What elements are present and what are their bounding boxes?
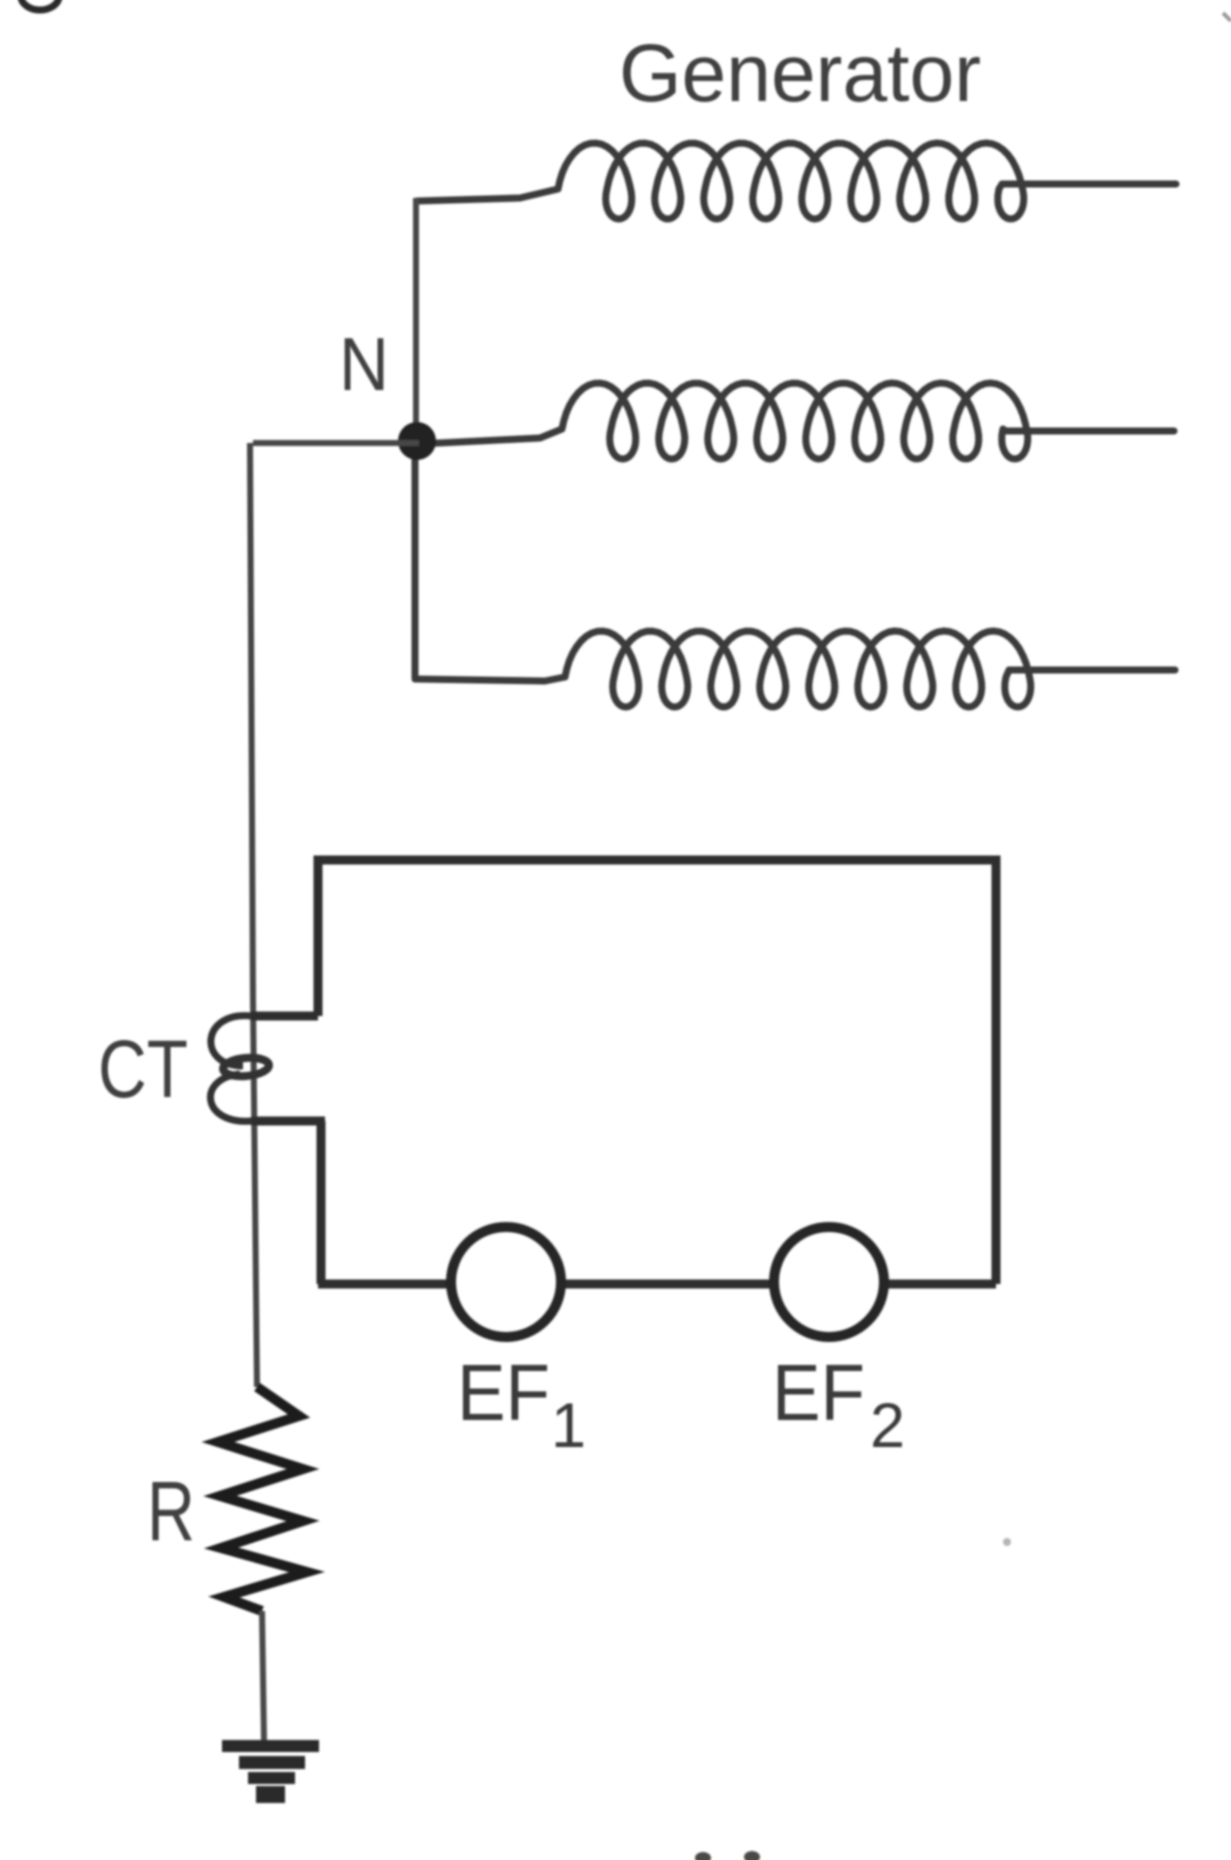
svg-text:EF: EF — [772, 1348, 865, 1437]
svg-text:R: R — [147, 1464, 195, 1558]
svg-text:2: 2 — [870, 1391, 905, 1461]
svg-text:Generator: Generator — [619, 28, 981, 119]
svg-text:CT: CT — [98, 1024, 188, 1115]
svg-text:N: N — [339, 322, 389, 406]
svg-text:EF: EF — [457, 1348, 550, 1437]
svg-text:1: 1 — [551, 1391, 586, 1461]
